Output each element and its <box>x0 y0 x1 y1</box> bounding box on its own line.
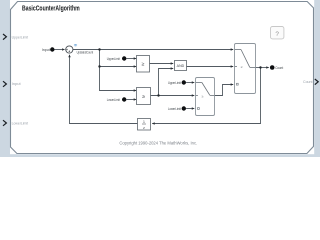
svg-text:≥: ≥ <box>142 94 145 100</box>
svg-text:AND: AND <box>177 64 185 68</box>
svg-text:Count: Count <box>303 80 313 84</box>
svg-text:Copyright 1990-2024 The MathWo: Copyright 1990-2024 The MathWorks, Inc. <box>119 141 197 146</box>
svg-text:≥: ≥ <box>241 65 243 69</box>
svg-text:≥: ≥ <box>142 61 145 67</box>
svg-text:?: ? <box>275 31 279 38</box>
svg-text:BasicCounterAlgorithm: BasicCounterAlgorithm <box>22 5 80 12</box>
svg-text:UpperLimit: UpperLimit <box>168 81 182 85</box>
svg-text:LowerLimit: LowerLimit <box>12 122 29 126</box>
svg-text:Input: Input <box>12 82 22 86</box>
svg-text:1: 1 <box>143 120 145 124</box>
svg-text:z: z <box>143 126 145 130</box>
svg-text:LowerLimit: LowerLimit <box>168 107 182 111</box>
svg-text:UpperLimit: UpperLimit <box>107 57 121 61</box>
svg-text:LowerLimit: LowerLimit <box>107 98 121 102</box>
svg-text:UpperLimit: UpperLimit <box>12 35 29 39</box>
svg-text:Input: Input <box>42 48 51 52</box>
svg-text:UpdatedCount: UpdatedCount <box>77 50 94 54</box>
svg-text:≥: ≥ <box>202 94 204 98</box>
svg-text:Count: Count <box>275 66 284 70</box>
